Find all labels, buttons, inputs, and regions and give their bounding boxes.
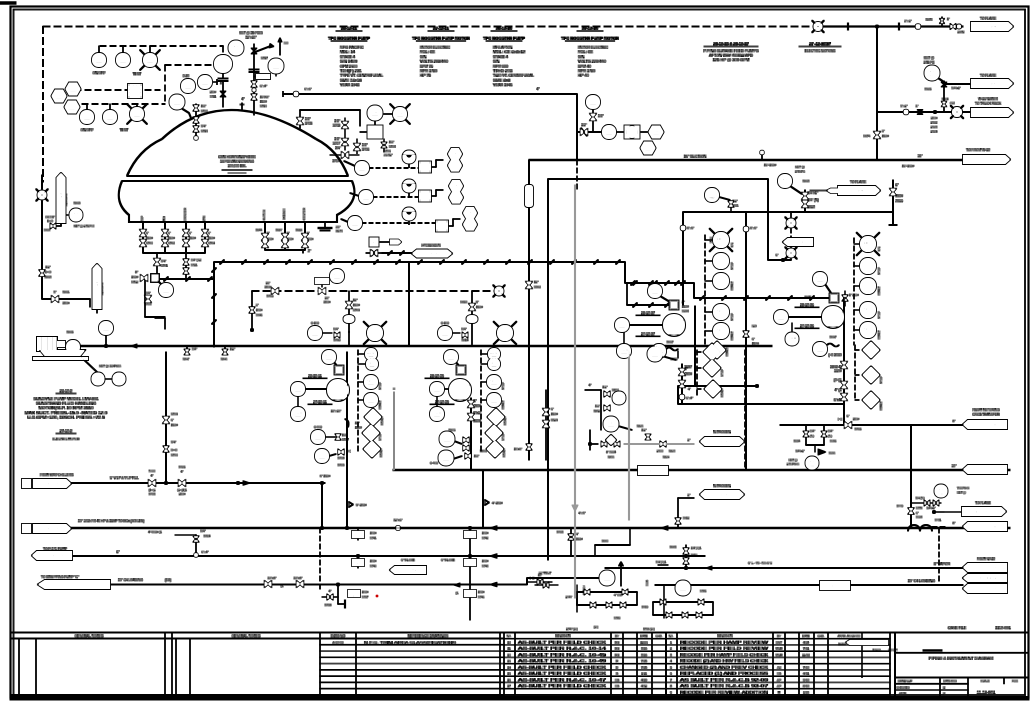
spec block motor 27-12-15 <box>561 26 619 78</box>
svg-text:PIPING BUTANE FEED PUMPS: PIPING BUTANE FEED PUMPS <box>703 49 759 53</box>
svg-text:6": 6" <box>551 407 554 411</box>
instrument LT <box>214 55 232 107</box>
valve 3711 <box>210 90 226 99</box>
svg-text:TEST: TEST <box>133 72 142 76</box>
svg-text:START: START <box>725 347 729 356</box>
svg-text:SS: SS <box>96 57 102 62</box>
svg-text:AS-BUILT PER FIELD CHECK: AS-BUILT PER FIELD CHECK <box>518 640 608 644</box>
svg-text:6" L - 73 - NK-6"C: 6" L - 73 - NK-6"C <box>748 561 773 565</box>
misc y545 <box>595 528 630 556</box>
svg-text:PT: PT <box>174 99 180 104</box>
svg-text:B: B <box>616 672 618 676</box>
pipe vert x409 <box>408 262 410 345</box>
valve 3703b <box>333 118 348 132</box>
svg-text:6": 6" <box>208 231 211 235</box>
spec block pump 28-12-11 <box>328 26 383 88</box>
svg-text:AFTON WAY 400KW APD: AFTON WAY 400KW APD <box>709 53 753 57</box>
flag metering <box>953 408 1007 429</box>
svg-text:3706: 3706 <box>201 109 208 113</box>
svg-text:3806: 3806 <box>449 428 456 432</box>
svg-text:11.12-001: 11.12-001 <box>977 690 996 695</box>
svg-text:START: START <box>877 286 881 295</box>
svg-text:XOO: XOO <box>815 276 825 281</box>
svg-text:TO/FROM W-12: TO/FROM W-12 <box>966 148 990 152</box>
svg-text:275 PS: 275 PS <box>795 170 805 174</box>
svg-text:4"x3": 4"x3" <box>579 511 586 515</box>
svg-text:TPC BOOSTER PUMP MOTOR: TPC BOOSTER PUMP MOTOR <box>412 36 470 41</box>
svg-text:3724: 3724 <box>204 534 211 538</box>
svg-text:28-12-36: 28-12-36 <box>800 303 814 307</box>
svg-text:MAX SUCT. PRESS.-15.0 -RATED 1: MAX SUCT. PRESS.-15.0 -RATED 12.0 <box>25 411 108 415</box>
svg-text:STOP: STOP <box>730 313 734 321</box>
svg-text:3L2-8540: 3L2-8540 <box>849 189 864 193</box>
svg-text:10" C4 LOADING: 10" C4 LOADING <box>908 579 936 583</box>
svg-text:27-12-11: 27-12-11 <box>433 26 450 31</box>
pipe y404 <box>678 385 844 426</box>
valve stack 3717 <box>249 44 269 115</box>
svg-text:TO TRUCK RACK: TO TRUCK RACK <box>975 102 1002 106</box>
svg-text:16"-150#: 16"-150# <box>902 164 914 168</box>
pump 36 psh <box>786 323 799 346</box>
flag to flare 2 <box>971 74 1013 89</box>
pipe to truck rack <box>877 111 963 113</box>
svg-text:TO FLARE: TO FLARE <box>975 501 991 505</box>
svg-text:AP: AP <box>777 684 781 688</box>
svg-text:1/2": 1/2" <box>45 265 50 269</box>
nozzle labels <box>140 208 306 222</box>
svg-text:F: F <box>528 195 530 199</box>
svg-text:150#: 150# <box>896 194 904 198</box>
svg-text:NC I: NC I <box>490 379 498 384</box>
pump 28-12-37 <box>615 311 685 336</box>
hex TP1 <box>448 159 462 171</box>
svg-text:P.S.: P.S. <box>433 386 440 391</box>
svg-text:10": 10" <box>355 421 359 425</box>
flag wfrom w12 <box>760 148 1010 168</box>
svg-text:8"-C: 8"-C <box>650 470 657 474</box>
flag 11.12-010 <box>952 464 1007 474</box>
svg-text:ELECTRIC MOTOR: ELECTRIC MOTOR <box>53 437 81 441</box>
svg-text:D=O: D=O <box>47 219 53 223</box>
svg-text:MCC: MCC <box>716 258 726 263</box>
svg-text:1: 1 <box>26 483 28 487</box>
svg-text:3/4": 3/4" <box>810 429 815 433</box>
svg-text:MCC: MCC <box>490 362 499 366</box>
svg-text:PAH: PAH <box>115 376 123 381</box>
svg-text:8"x6": 8"x6" <box>750 226 757 230</box>
svg-text:2924: 2924 <box>931 130 938 134</box>
svg-text:CRM HORTONSPHERE: CRM HORTONSPHERE <box>218 155 256 159</box>
svg-text:3707: 3707 <box>333 142 340 146</box>
tick 4-150 <box>483 500 503 508</box>
svg-text:START: START <box>720 388 724 397</box>
spec block pump 28-12-15 <box>483 26 534 88</box>
svg-text:3738: 3738 <box>325 603 332 607</box>
hydrogen flag <box>382 244 452 258</box>
hrv flag <box>22 473 73 488</box>
instrument HS2 <box>103 104 117 124</box>
svg-text:LAH: LAH <box>55 93 63 98</box>
svg-text:MID: MID <box>162 216 166 221</box>
svg-text:6": 6" <box>353 594 356 598</box>
flag p171 <box>32 547 119 560</box>
svg-text:RECODE PER HAMP REVIEW: RECODE PER HAMP REVIEW <box>680 640 768 644</box>
svg-text:T4L: T4L <box>452 151 460 156</box>
svg-text:SUNSTRAND FLUID HANDLING: SUNSTRAND FLUID HANDLING <box>36 402 96 406</box>
svg-text:3765: 3765 <box>855 427 862 431</box>
svg-text:GENERAL NOTES: GENERAL NOTES <box>75 634 104 638</box>
svg-text:3703: 3703 <box>333 124 340 128</box>
svg-text:TPC BOOSTER PUMP MOTOR: TPC BOOSTER PUMP MOTOR <box>561 36 619 41</box>
svg-text:FE: FE <box>680 585 686 590</box>
svg-text:3L2-8540: 3L2-8540 <box>982 25 997 29</box>
svg-text:11.12-032: 11.12-032 <box>980 566 996 570</box>
svg-text:4": 4" <box>469 534 472 538</box>
xgate col <box>577 123 601 136</box>
svg-text:2300: 2300 <box>657 449 664 453</box>
svg-text:3847: 3847 <box>183 357 190 361</box>
svg-text:AS-BUILT PER FIELD CHECK: AS-BUILT PER FIELD CHECK <box>518 672 608 676</box>
svg-text:FC: FC <box>443 455 449 460</box>
svg-text:150#: 150# <box>685 372 693 376</box>
svg-text:4/92: 4/92 <box>641 684 647 688</box>
svg-text:T4L: T4L <box>453 183 461 188</box>
svg-text:6": 6" <box>168 231 171 235</box>
sq M inst <box>370 238 402 247</box>
svg-text:GENERAL NOTES: GENERAL NOTES <box>232 634 261 638</box>
svg-text:LAH: LAH <box>396 111 404 116</box>
svg-text:150#: 150# <box>931 116 938 120</box>
svg-text:3/4"x1": 3/4"x1" <box>927 506 936 510</box>
svg-text:4": 4" <box>181 470 184 474</box>
instrument HS3 <box>269 59 284 77</box>
labels NO <box>744 324 759 346</box>
svg-text:2": 2" <box>267 231 270 235</box>
svg-text:3853: 3853 <box>45 275 52 279</box>
svg-text:15: 15 <box>507 659 511 663</box>
svg-text:3717: 3717 <box>261 56 268 60</box>
svg-text:STOP: STOP <box>501 433 505 440</box>
svg-text:3861: 3861 <box>732 204 739 208</box>
svg-text:10": 10" <box>538 573 542 577</box>
svg-text:27-12-15: 27-12-15 <box>582 26 599 31</box>
svg-text:2": 2" <box>307 231 310 235</box>
svg-text:PSH: PSH <box>94 376 102 381</box>
dial TI1 <box>403 151 416 168</box>
svg-text:150#: 150# <box>752 342 759 346</box>
svg-text:319-8343: 319-8343 <box>100 283 104 296</box>
pipe suction bottom <box>37 345 772 347</box>
svg-text:DATE: DATE <box>802 634 809 638</box>
svg-text:MCC: MCC <box>368 362 377 366</box>
tick 12x6 <box>394 518 403 530</box>
svg-text:LC: LC <box>70 86 75 91</box>
svg-text:(=(): (=() <box>530 576 534 580</box>
svg-text:3709: 3709 <box>171 412 178 416</box>
svg-text:150#: 150# <box>208 236 215 240</box>
svg-text:LA: LA <box>134 111 139 116</box>
svg-text:3/4": 3/4" <box>828 429 833 433</box>
svg-text:2872: 2872 <box>958 30 965 34</box>
svg-text:3862: 3862 <box>808 205 816 209</box>
svg-text:3874: 3874 <box>863 134 870 138</box>
svg-text:150#: 150# <box>324 300 331 304</box>
svg-text:150#: 150# <box>63 301 70 305</box>
svg-text:=: = <box>393 387 395 391</box>
pump 37 aov <box>627 281 694 313</box>
reducers 8x6 <box>681 226 757 232</box>
diamonds 2 <box>855 342 883 411</box>
svg-text:26/32": 26/32" <box>384 153 393 157</box>
svg-text:FT: FT <box>319 453 325 458</box>
svg-text:MS I: MS I <box>367 397 376 402</box>
svg-text:P.S.: P.S. <box>618 322 625 327</box>
svg-text:AS BUILT PER R.&.C.B 93-07: AS BUILT PER R.&.C.B 93-07 <box>680 684 768 688</box>
svg-text:4": 4" <box>329 589 332 593</box>
svg-text:3769: 3769 <box>353 308 360 312</box>
pi 0-100 b <box>438 321 469 342</box>
flag to flare top <box>971 17 1013 32</box>
svg-text:10"X8": 10"X8" <box>260 95 269 99</box>
svg-text:AOV: AOV <box>162 287 171 292</box>
svg-text:-100: -100 <box>709 196 715 200</box>
svg-text:11-92: 11-92 <box>802 653 810 657</box>
svg-text:DST: DST <box>776 640 782 644</box>
svg-text:3871: 3871 <box>805 295 812 299</box>
svg-text:TI: TI <box>364 194 368 199</box>
svg-text:8"x6": 8"x6" <box>687 226 694 230</box>
svg-text:(EHD: (EHD <box>797 240 806 244</box>
svg-text:PSHL: PSHL <box>787 336 798 341</box>
svg-text:REVISION: REVISION <box>717 634 733 638</box>
svg-text:SET @ 10 PSIG: SET @ 10 PSIG <box>99 364 121 368</box>
svg-text:150#: 150# <box>267 237 274 241</box>
svg-text:6"x4": 6"x4" <box>686 396 693 400</box>
svg-text:3680: 3680 <box>602 539 609 543</box>
svg-text:TPC BOOSTER PUMP: TPC BOOSTER PUMP <box>483 36 525 41</box>
svg-text:3762: 3762 <box>168 241 175 245</box>
svg-text:ON: ON <box>730 243 734 247</box>
left meter bits <box>528 573 552 584</box>
svg-text:27-12-37: 27-12-37 <box>641 332 655 336</box>
spec block feed pumps <box>703 42 759 62</box>
dashed col 2 <box>853 238 855 345</box>
svg-text:10: 10 <box>669 697 673 701</box>
svg-text:AS-BUILT PER FIELD CHECK: AS-BUILT PER FIELD CHECK <box>518 684 608 688</box>
svg-text:RECODE PER FIELD REVIEW: RECODE PER FIELD REVIEW <box>680 647 768 651</box>
svg-text:0-30: 0-30 <box>183 74 190 78</box>
hex TR3 <box>463 218 477 230</box>
svg-text:3/4" (N2: 3/4" (N2 <box>191 258 202 262</box>
svg-text:W-15 WATER: W-15 WATER <box>978 97 998 101</box>
svg-text:3698: 3698 <box>682 309 689 313</box>
svg-text:27-12-36: 27-12-36 <box>800 324 814 328</box>
pump arcs bottom right <box>908 521 1007 531</box>
svg-text:PI: PI <box>617 395 621 400</box>
svg-text:AOV: AOV <box>651 288 660 293</box>
svg-text:RECODE PER REVIEW, ADDITION: RECODE PER REVIEW, ADDITION <box>680 690 769 694</box>
svg-text:1/4"(O)1: 1/4"(O)1 <box>691 546 702 550</box>
svg-text:NC I: NC I <box>864 307 872 312</box>
svg-text:3/4": 3/4" <box>201 124 206 128</box>
svg-text:HP 40: HP 40 <box>578 73 590 78</box>
svg-text:TO STRIPPING PUMP "C": TO STRIPPING PUMP "C" <box>41 575 79 579</box>
svg-text:MIDDLE: MIDDLE <box>282 208 286 219</box>
svg-text:275 PSIG: 275 PSIG <box>787 462 799 466</box>
svg-text:ELECTRIC MOTORS: ELECTRIC MOTORS <box>805 49 836 53</box>
svg-text:3/4"(O)1: 3/4"(O)1 <box>656 560 667 564</box>
svg-text:1": 1" <box>220 81 223 85</box>
svg-text:27-12-2: 27-12-2 <box>60 429 72 433</box>
svg-text:150#: 150# <box>256 308 263 312</box>
svg-text:PSHL: PSHL <box>293 411 305 416</box>
bracket inst <box>254 74 270 79</box>
svg-text:TO FLARE: TO FLARE <box>95 279 99 297</box>
svg-text:6" FLARE: 6" FLARE <box>441 558 455 562</box>
svg-text:2747: 2747 <box>566 595 573 599</box>
svg-text:FROM HRV CHILLERS: FROM HRV CHILLERS <box>40 473 73 477</box>
truck rack details <box>877 97 971 134</box>
motor pump LH <box>37 330 80 358</box>
sq TY3 <box>436 219 460 232</box>
svg-text:PSHL: PSHL <box>619 348 631 353</box>
svg-text:3/16: 3/16 <box>641 653 647 657</box>
svg-text:3743: 3743 <box>482 564 489 568</box>
svg-text:150#: 150# <box>478 590 485 594</box>
instrument PI b <box>198 75 223 89</box>
svg-text:MOL: MOL <box>716 237 726 242</box>
right lower flags <box>963 557 1007 593</box>
svg-text:150#: 150# <box>476 305 483 309</box>
instrument TI1 <box>344 161 419 175</box>
branch 3724 <box>148 529 210 557</box>
svg-text:16"x8": 16"x8" <box>514 447 522 451</box>
svg-text:(0=(1: (0=(1 <box>834 378 842 382</box>
svg-text:3": 3" <box>54 290 57 294</box>
svg-text:START: START <box>502 448 506 457</box>
svg-text:TY: TY <box>422 164 427 169</box>
svg-text:2": 2" <box>682 300 685 304</box>
cluster 3683 <box>656 545 702 570</box>
svg-text:3873: 3873 <box>926 18 933 22</box>
to flare vflag 2 <box>93 264 105 313</box>
prv T-15 <box>229 31 264 56</box>
svg-text:3858: 3858 <box>44 228 50 232</box>
pic cluster <box>585 383 632 459</box>
svg-text:BLDG: BLDG <box>838 642 845 646</box>
svg-text:TI: TI <box>360 165 364 170</box>
valve col 3721 <box>184 250 202 278</box>
pipe flare header right solid <box>818 26 963 28</box>
svg-text:SB: SB <box>777 672 781 676</box>
nitrogen flag text <box>0 0 1 1</box>
vent arrow <box>255 38 289 56</box>
svg-text:6" 150#: 6" 150# <box>320 474 331 478</box>
svg-text:11: 11 <box>507 647 510 651</box>
svg-text:3730: 3730 <box>171 453 178 457</box>
svg-text:SB: SB <box>615 678 619 682</box>
svg-text:13-07: 13-07 <box>781 182 789 186</box>
svg-text:JM: JM <box>777 665 782 669</box>
svg-text:3753: 3753 <box>557 530 564 534</box>
valve 3815 <box>889 180 903 225</box>
svg-text:LA: LA <box>147 57 152 62</box>
svg-text:16": 16" <box>918 154 923 158</box>
drops y584 <box>322 584 378 608</box>
svg-text:3/4"x1": 3/4"x1" <box>808 191 819 195</box>
cluster 3753 <box>557 528 583 556</box>
mcc small 4 <box>481 348 505 452</box>
metering line details <box>787 414 862 470</box>
instrument LP square <box>128 84 142 98</box>
sq TY2 <box>419 190 443 202</box>
pi cluster1 <box>705 188 739 212</box>
dial TI3 <box>403 208 416 225</box>
instrument LA1 <box>133 46 160 76</box>
sq TY1 <box>419 160 443 173</box>
svg-text:7-91: 7-91 <box>803 647 809 651</box>
psh pah <box>92 364 126 386</box>
svg-text:6": 6" <box>776 253 779 257</box>
svg-text:3812: 3812 <box>683 516 690 520</box>
svg-text:STOP: STOP <box>730 262 734 270</box>
svg-text:TO FLARE: TO FLARE <box>59 191 63 209</box>
svg-text:PAH: PAH <box>652 129 660 134</box>
svg-text:DATE: DATE <box>640 634 647 638</box>
svg-text:6"x4": 6"x4" <box>834 398 842 402</box>
svg-text:M: M <box>372 239 375 244</box>
ft box col <box>616 126 648 139</box>
nitrogen flag2 <box>676 484 744 528</box>
svg-text:2": 2" <box>357 534 360 538</box>
svg-text:3737: 3737 <box>362 595 369 599</box>
svg-text:CENTER: CENTER <box>302 208 306 220</box>
svg-text:3814: 3814 <box>462 338 469 342</box>
svg-text:TEST: TEST <box>120 128 129 132</box>
svg-text:8": 8" <box>476 300 479 304</box>
svg-text:NO: NO <box>752 324 757 328</box>
svg-text:1/93: 1/93 <box>803 690 809 694</box>
svg-text:FT: FT <box>817 346 823 351</box>
svg-text:450: 450 <box>929 74 934 78</box>
svg-text:8-93: 8-93 <box>803 684 809 688</box>
svg-text:3/4" (N): 3/4" (N) <box>808 198 819 202</box>
svg-text:3846: 3846 <box>221 357 228 361</box>
svg-text:750 PSIG: 750 PSIG <box>957 486 969 490</box>
svg-text:3637: 3637 <box>667 340 674 344</box>
svg-text:T-15: T-15 <box>233 49 239 53</box>
svg-text:(=0 3080: (=0 3080 <box>828 353 841 357</box>
svg-text:4"-300# (1: 4"-300# (1 <box>148 530 162 534</box>
svg-text:3756: 3756 <box>645 580 649 586</box>
drops y556 1 <box>352 556 455 574</box>
svg-text:11.03-41: 11.03-41 <box>715 493 729 497</box>
prv 13-07 <box>778 165 810 194</box>
pipe recirc rect top <box>548 179 791 560</box>
prv 396 cluster <box>897 485 1006 523</box>
svg-text:0-300: 0-300 <box>314 425 322 429</box>
svg-text:STOP: STOP <box>720 369 724 376</box>
dashed x320 bottom <box>320 528 939 590</box>
svg-text:AOV: AOV <box>333 273 342 278</box>
svg-text:PSHL: PSHL <box>432 411 444 416</box>
svg-text:16: 16 <box>507 678 511 682</box>
svg-text:D=O: D=O <box>171 448 178 452</box>
svg-text:3742: 3742 <box>482 536 489 540</box>
svg-text:6": 6" <box>189 231 192 235</box>
pipe vapor line <box>605 562 963 587</box>
svg-text:TI: TI <box>353 220 357 225</box>
